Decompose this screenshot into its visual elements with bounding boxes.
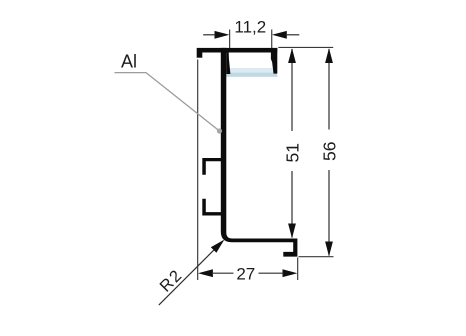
dim 27 right extension line — [297, 258, 299, 281]
dim 56 line — [328, 49, 330, 130]
dim 27 left arrow — [198, 269, 213, 277]
lens bottom edge — [224, 73, 277, 77]
dim 11,2 left extension tick — [229, 30, 230, 49]
dim 27 left extension line — [197, 60, 199, 281]
profile left wall, bottom bar and right foot — [221, 48, 298, 257]
dim 27 right arrow — [283, 269, 298, 277]
dim 51 bottom arrow — [288, 224, 296, 239]
profile lower hook on left wall — [202, 199, 221, 216]
dim 56 top arrow — [325, 48, 333, 63]
svg-text:51: 51 — [283, 143, 303, 162]
dim 56 bottom arrow — [325, 242, 333, 257]
dim 51 top arrow — [288, 48, 296, 63]
top extension line — [278, 46, 333, 48]
profile left lip wedge — [226, 53, 230, 75]
R2 arrow — [211, 240, 225, 253]
dim 11,2 right extension tick — [271, 30, 272, 49]
svg-text:R2: R2 — [156, 266, 186, 296]
R2 leader line — [159, 241, 223, 305]
profile top-left hook — [197, 53, 203, 58]
profile top bar — [197, 48, 278, 53]
svg-text:27: 27 — [236, 265, 255, 284]
bottom-right extension line — [299, 256, 334, 258]
Al leader line — [115, 73, 220, 131]
dim 11,2 right arrow — [272, 31, 287, 39]
profile upper hook on left wall — [202, 158, 221, 175]
svg-text:56: 56 — [320, 142, 340, 161]
dim 51 line — [291, 49, 293, 131]
profile right stub — [271, 53, 277, 74]
svg-text:Al: Al — [121, 52, 137, 72]
svg-text:11,2: 11,2 — [234, 18, 266, 37]
lens (light blue diffuser) — [224, 68, 277, 77]
Al leader dot — [217, 128, 222, 133]
dim 11,2 left arrow — [215, 31, 230, 39]
